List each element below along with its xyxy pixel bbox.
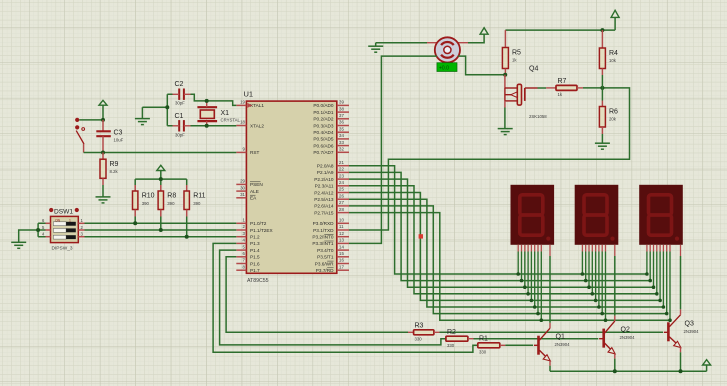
wire P2.0 segment bus — [349, 166, 647, 274]
svg-text:P2.2/A10: P2.2/A10 — [314, 177, 334, 182]
wire ground to capacitors — [142, 106, 167, 108]
node gate divider junction — [600, 86, 604, 90]
wire row2 P1.1 — [85, 229, 237, 231]
pin 16 P3.6/WR — [315, 258, 349, 267]
svg-text:10k: 10k — [609, 58, 617, 63]
node rail R4 — [600, 28, 604, 32]
pin 23 P2.2/A10 — [314, 173, 349, 182]
node display 2 pin 6 junction — [600, 312, 604, 316]
svg-text:R3: R3 — [415, 323, 424, 330]
svg-text:10: 10 — [339, 218, 344, 223]
7-segment display 3 — [639, 185, 683, 256]
node display 1 pin 2 junction — [523, 285, 527, 289]
svg-text:13: 13 — [339, 238, 344, 243]
wire P1.4 to R2 — [220, 250, 446, 345]
svg-text:Q4: Q4 — [529, 66, 538, 73]
svg-text:+0.0: +0.0 — [439, 65, 449, 71]
crystal X1 — [197, 101, 240, 126]
node capacitors left junction — [165, 105, 169, 109]
svg-text:390: 390 — [193, 201, 201, 206]
power arrow above C3 — [102, 105, 104, 120]
pin 4 P1.3 — [236, 238, 260, 247]
svg-text:DIPSW_3: DIPSW_3 — [52, 246, 73, 252]
svg-text:C2: C2 — [175, 81, 184, 88]
svg-text:XTAL2: XTAL2 — [250, 123, 264, 128]
svg-text:P0.2/AD2: P0.2/AD2 — [313, 117, 333, 122]
svg-text:P0.7/AD7: P0.7/AD7 — [313, 150, 333, 155]
svg-text:2N3904: 2N3904 — [684, 329, 700, 334]
svg-text:23: 23 — [339, 173, 344, 178]
node display 1 pin 3 junction — [526, 292, 530, 296]
svg-text:P1.6: P1.6 — [250, 261, 260, 266]
node display 2 pin 4 junction — [594, 299, 598, 303]
svg-text:24: 24 — [339, 180, 344, 185]
wire P1.5 to R3 — [226, 257, 408, 333]
wire Q3 emitter down — [680, 352, 682, 371]
resistor R11 390 — [184, 185, 206, 217]
node R10 row1 — [133, 221, 137, 225]
svg-text:P1.0/T2: P1.0/T2 — [250, 221, 267, 226]
svg-text:P3.6/WR: P3.6/WR — [315, 261, 334, 266]
wire switch to C3 top — [79, 119, 103, 121]
wire R2 to Q2 base — [474, 338, 599, 340]
svg-text:18: 18 — [240, 120, 245, 125]
op-amp U1 AT89C55 microcontroller body — [246, 101, 336, 273]
pin 19 XTAL1 — [236, 100, 264, 109]
node DSW1 left junction — [36, 228, 40, 232]
svg-text:11: 11 — [339, 224, 344, 229]
wire display 2 segment pin 4 — [595, 252, 597, 301]
svg-text:R6: R6 — [609, 109, 618, 116]
svg-text:X1: X1 — [221, 110, 230, 117]
pin 28 P2.7/A15 — [314, 207, 349, 216]
svg-text:C3: C3 — [114, 130, 123, 137]
node display 3 pin 6 junction — [665, 312, 669, 316]
pin 32 P0.7/AD7 — [313, 147, 349, 156]
wire motor lower right to R5 bottom — [458, 56, 505, 75]
svg-text:AT89C55: AT89C55 — [247, 278, 269, 284]
wire display 2 segment pin 0 — [581, 252, 583, 275]
node display 3 pin 0 junction — [645, 272, 649, 276]
svg-text:R1: R1 — [479, 336, 488, 343]
node R8 row2 — [159, 228, 163, 232]
wire P1.3 to R1 — [213, 243, 478, 352]
wire P2.6 segment bus — [349, 206, 667, 314]
node display 3 pin 1 junction — [648, 279, 652, 283]
capacitor C1 — [173, 113, 191, 138]
svg-text:P0.5/AD5: P0.5/AD5 — [313, 137, 333, 142]
node display 2 pin 7 junction — [604, 318, 608, 322]
node display 2 pin 5 junction — [597, 305, 601, 309]
pin 3 P1.2 — [236, 231, 260, 240]
wire pullup top rail — [135, 179, 187, 185]
svg-text:P3.3/INT1: P3.3/INT1 — [312, 241, 333, 246]
svg-text:R5: R5 — [512, 50, 521, 57]
svg-text:RST: RST — [250, 150, 260, 155]
resistor R7 1k — [546, 78, 583, 97]
wire motor lower left to P3.3 — [349, 56, 437, 243]
pin 6 P1.5 — [236, 251, 260, 260]
svg-text:8.2k: 8.2k — [110, 169, 119, 174]
wire C1 C2 left plates vertical — [167, 94, 172, 126]
svg-text:2N3904: 2N3904 — [555, 342, 571, 347]
svg-text:12: 12 — [339, 231, 344, 236]
wire emitter common rail — [550, 365, 707, 371]
node R5 bottom motor junction — [503, 73, 507, 77]
7-segment display 1 — [511, 185, 555, 256]
pin 35 P0.4/AD4 — [313, 126, 349, 135]
svg-text:R9: R9 — [110, 161, 119, 168]
resistor R6 20k — [599, 101, 618, 135]
switch DSW1 DIPSW_3 — [42, 208, 85, 252]
wire R11 bottom to row3 — [186, 217, 188, 237]
svg-text:U1: U1 — [244, 90, 254, 99]
wire motor left to ground — [376, 42, 427, 44]
svg-text:14: 14 — [339, 244, 344, 249]
ground R6 — [601, 134, 603, 143]
svg-text:C1: C1 — [175, 113, 184, 120]
wire P2.2 segment bus — [349, 179, 654, 287]
svg-text:29: 29 — [240, 179, 245, 184]
svg-text:P3.4/T0: P3.4/T0 — [317, 248, 334, 253]
pin 11 P3.1/TXD — [313, 224, 349, 233]
wire display 2 segment pin 7 — [605, 252, 607, 321]
svg-text:39: 39 — [339, 100, 344, 105]
svg-text:30pF: 30pF — [175, 133, 185, 138]
pin 37 P0.2/AD2 — [313, 113, 349, 122]
svg-text:10uF: 10uF — [114, 138, 124, 143]
svg-text:20k: 20k — [609, 117, 617, 122]
svg-text:P0.3/AD3: P0.3/AD3 — [313, 123, 333, 128]
wire display 3 segment pin 7 — [669, 252, 671, 321]
svg-text:P2.4/A12: P2.4/A12 — [314, 190, 334, 195]
wire display 3 segment pin 1 — [649, 252, 651, 281]
pin 22 P2.1/A9 — [317, 167, 349, 176]
pin 36 P0.3/AD3 — [313, 120, 349, 129]
node XTAL2 crystal bottom — [205, 124, 209, 128]
wire P2.1 segment bus — [349, 172, 650, 280]
wire display 1 segment pin 3 — [527, 252, 529, 294]
svg-text:33: 33 — [339, 140, 344, 145]
transistor Q3 2N3904 — [664, 309, 699, 352]
svg-text:27: 27 — [339, 200, 344, 205]
wire R4 to R6 — [601, 75, 603, 101]
wire display 3 segment pin 0 — [646, 252, 648, 275]
svg-text:P0.6/AD6: P0.6/AD6 — [313, 143, 333, 148]
ground Q4 source — [504, 108, 506, 129]
svg-text:30: 30 — [240, 185, 245, 190]
svg-text:Q2: Q2 — [621, 327, 630, 334]
wire display 2 segment pin 2 — [588, 252, 590, 288]
node display 1 pin 5 junction — [533, 305, 537, 309]
svg-text:P2.5/A13: P2.5/A13 — [314, 197, 334, 202]
wire R1 to Q1 base — [505, 344, 533, 346]
svg-text:15: 15 — [339, 251, 344, 256]
svg-text:DSW1: DSW1 — [54, 209, 73, 216]
node display 2 pin 3 junction — [591, 292, 595, 296]
wire display 1 segment pin 7 — [540, 252, 542, 321]
svg-text:R8: R8 — [167, 193, 176, 200]
wire XTAL1 net — [191, 94, 237, 105]
svg-text:35: 35 — [339, 126, 344, 131]
svg-text:P1.5: P1.5 — [250, 255, 260, 260]
svg-text:P3.0/RXD: P3.0/RXD — [313, 221, 334, 226]
pin 13 P3.3/INT1 — [312, 238, 349, 247]
node XTAL1 crystal top — [205, 99, 209, 103]
wire display 3 segment pin 3 — [656, 252, 658, 294]
pin 39 P0.0/AD0 — [313, 100, 349, 109]
svg-text:P2.7/A15: P2.7/A15 — [314, 210, 334, 215]
ground motor left — [375, 43, 377, 47]
svg-text:Q3: Q3 — [685, 320, 694, 327]
svg-text:330: 330 — [415, 337, 423, 342]
svg-text:P2.1/A9: P2.1/A9 — [317, 170, 334, 175]
pin 14 P3.4/T0 — [317, 244, 349, 253]
wire Q4 gate to R7 — [538, 87, 547, 89]
wire R10 bottom to row1 — [134, 217, 136, 224]
pin 29 PSEN — [236, 179, 262, 188]
svg-text:R11: R11 — [193, 193, 205, 200]
wire R7 to R4 R6 junction and P3.1 — [349, 88, 630, 230]
node display 3 pin 2 junction — [652, 285, 656, 289]
node display 3 pin 5 junction — [662, 305, 666, 309]
wire XTAL2 net — [191, 125, 237, 127]
svg-text:2N3904: 2N3904 — [620, 335, 636, 340]
node display 1 pin 0 junction — [516, 272, 520, 276]
pin 27 P2.6/A14 — [314, 200, 349, 209]
svg-text:ALE: ALE — [250, 189, 259, 194]
node display 3 pin 7 junction — [668, 318, 672, 322]
svg-text:19: 19 — [240, 100, 245, 105]
svg-text:330: 330 — [479, 350, 487, 355]
node display 1 pin 1 junction — [520, 279, 524, 283]
node RST junction — [101, 151, 105, 155]
wire VCC rail top — [505, 17, 615, 30]
wire display 1 segment pin 6 — [537, 252, 539, 314]
svg-text:R10: R10 — [142, 193, 155, 200]
svg-text:P0.0/AD0: P0.0/AD0 — [313, 103, 333, 108]
svg-text:25: 25 — [339, 187, 344, 192]
svg-text:17: 17 — [339, 264, 344, 269]
resistor R5 1k — [502, 30, 521, 75]
svg-text:P2.3/A11: P2.3/A11 — [315, 184, 334, 189]
wire display 3 segment pin 4 — [659, 252, 661, 301]
svg-text:P1.7: P1.7 — [250, 268, 260, 273]
node Q2 emitter rail — [613, 369, 617, 373]
pin 7 P1.6 — [236, 258, 260, 267]
svg-text:31: 31 — [240, 192, 245, 197]
node display 1 pin 6 junction — [536, 312, 540, 316]
node display 3 pin 4 junction — [658, 299, 662, 303]
pin 12 P3.2/INT0 — [312, 231, 349, 240]
pin 34 P0.5/AD5 — [313, 133, 349, 142]
node display 1 pin 7 junction — [540, 318, 544, 322]
motor M1 — [427, 37, 468, 62]
resistor R9 — [100, 153, 119, 186]
node display 2 pin 2 junction — [587, 285, 591, 289]
node display 2 pin 1 junction — [584, 279, 588, 283]
svg-text:P1.4: P1.4 — [250, 248, 260, 253]
wire row1 P1.0 — [85, 222, 237, 224]
resistor R4 10k — [599, 30, 618, 75]
wire R8 bottom to row2 — [160, 217, 162, 231]
svg-text:21: 21 — [339, 160, 344, 165]
node C3 top — [101, 118, 105, 122]
pin 31 EA — [236, 192, 257, 201]
svg-text:26: 26 — [339, 193, 344, 198]
wire display 1 segment pin 1 — [521, 252, 523, 281]
node R11 row3 — [185, 235, 189, 239]
pin 15 P3.5/T1 — [317, 251, 349, 260]
wire Q2 emitter down — [614, 359, 616, 372]
svg-text:P3.1/TXD: P3.1/TXD — [313, 228, 334, 233]
svg-text:36: 36 — [339, 120, 344, 125]
wire RST net — [84, 152, 237, 154]
svg-text:PSEN: PSEN — [250, 182, 263, 187]
svg-text:34: 34 — [339, 133, 344, 138]
node Q3 emitter rail — [679, 369, 683, 373]
svg-text:390: 390 — [167, 201, 175, 206]
wire DSW1 left common — [19, 223, 46, 242]
7-segment display 2 — [575, 185, 619, 256]
wire P2.3 segment bus — [349, 186, 657, 294]
wire display 3 segment pin 5 — [662, 252, 664, 308]
power arrow above R8 — [160, 170, 162, 179]
node display 3 pin 3 junction — [655, 292, 659, 296]
svg-text:P0.4/AD4: P0.4/AD4 — [313, 130, 333, 135]
node display 2 pin 0 junction — [581, 272, 585, 276]
pin 18 XTAL2 — [236, 120, 264, 129]
svg-text:32: 32 — [339, 147, 344, 152]
node display 1 pin 4 junction — [530, 299, 534, 303]
pin 33 P0.6/AD6 — [313, 140, 349, 149]
wire display 2 segment pin 3 — [591, 252, 593, 294]
pin 1 P1.0/T2 — [236, 218, 267, 227]
svg-text:P2.6/A14: P2.6/A14 — [314, 204, 334, 209]
svg-text:P2.0/A8: P2.0/A8 — [317, 164, 334, 169]
svg-text:22: 22 — [339, 167, 344, 172]
pin 24 P2.3/A11 — [315, 180, 349, 189]
svg-text:R4: R4 — [609, 50, 618, 57]
svg-text:P1.3: P1.3 — [250, 241, 260, 246]
node pullup rail R8 — [159, 177, 163, 181]
pin 8 P1.7 — [236, 264, 260, 273]
svg-text:R7: R7 — [558, 78, 567, 85]
pin 17 P3.7/RD — [316, 264, 349, 273]
pin 30 ALE — [236, 185, 259, 194]
ground capacitors — [141, 107, 143, 118]
wire display 3 segment pin 6 — [666, 252, 668, 314]
motor active indicator — [437, 63, 457, 72]
svg-text:37: 37 — [339, 113, 344, 118]
pin 26 P2.5/A13 — [314, 193, 349, 202]
resistor R1 330 — [478, 336, 506, 355]
transistor Q4 2SK1058 — [505, 66, 547, 120]
svg-text:P1.1/T2EX: P1.1/T2EX — [250, 228, 274, 233]
svg-text:Q1: Q1 — [556, 334, 565, 341]
wire P2.5 segment bus — [349, 199, 663, 307]
transistor Q2 2N3904 — [599, 316, 635, 359]
resistor R2 330 — [446, 329, 474, 348]
wire R3 to Q3 base — [440, 331, 664, 333]
transistor Q1 2N3904 — [534, 323, 570, 366]
pin 5 P1.4 — [236, 244, 260, 253]
ground DSW1 — [11, 242, 26, 248]
node probe marker — [419, 234, 423, 238]
resistor R8 390 — [158, 185, 176, 217]
wire Q1 emitter down — [549, 366, 551, 372]
svg-text:EA: EA — [250, 196, 257, 201]
wire display 1 segment pin 2 — [524, 252, 526, 288]
wire display 1 segment pin 5 — [534, 252, 536, 308]
switch SW reset — [75, 118, 85, 153]
pin XTAL1 clock marker — [247, 103, 252, 108]
svg-text:1: 1 — [69, 218, 71, 222]
wire display 1 segment pin 0 — [517, 252, 519, 275]
wire display 2 segment pin 6 — [601, 252, 603, 314]
pin 21 P2.0/A8 — [317, 160, 349, 169]
svg-text:2SK1058: 2SK1058 — [529, 114, 547, 119]
power arrow emitter rail — [703, 360, 711, 365]
svg-text:P0.1/AD1: P0.1/AD1 — [313, 110, 333, 115]
svg-text:38: 38 — [339, 106, 344, 111]
wire display 2 segment pin 1 — [585, 252, 587, 281]
power arrow VCC rail — [611, 10, 619, 17]
svg-text:28: 28 — [339, 207, 344, 212]
pin 10 P3.0/RXD — [313, 218, 349, 227]
svg-text:330: 330 — [447, 343, 455, 348]
resistor R10 390 — [133, 185, 155, 217]
wire display2 common to Q2 collector — [614, 256, 616, 316]
wire display 2 segment pin 5 — [598, 252, 600, 308]
wire display 1 segment pin 4 — [530, 252, 532, 301]
wire row3 P1.2 — [85, 236, 237, 238]
pin 2 P1.1/T2EX — [236, 224, 273, 233]
svg-text:R2: R2 — [447, 329, 456, 336]
svg-text:390: 390 — [142, 201, 150, 206]
ground R9 — [102, 185, 104, 197]
pin 38 P0.1/AD1 — [313, 106, 349, 115]
svg-text:P3.7/RD: P3.7/RD — [316, 268, 334, 273]
power arrow motor right — [468, 34, 484, 43]
svg-text:P1.2: P1.2 — [250, 235, 260, 240]
svg-text:P3.5/T1: P3.5/T1 — [317, 255, 334, 260]
wire display 3 segment pin 2 — [653, 252, 655, 288]
pin 25 P2.4/A12 — [314, 187, 349, 196]
svg-text:16: 16 — [339, 258, 344, 263]
svg-text:P3.2/INT0: P3.2/INT0 — [312, 235, 333, 240]
svg-text:XTAL1: XTAL1 — [250, 103, 264, 108]
wire P2.4 segment bus — [349, 193, 660, 301]
svg-text:CRYSTAL: CRYSTAL — [221, 118, 241, 123]
capacitor C2 — [173, 81, 191, 106]
wire display1 common to Q1 collector — [549, 256, 551, 323]
wire display3 common to Q3 collector — [680, 256, 682, 309]
svg-text:30pF: 30pF — [175, 101, 185, 106]
capacitor C3 — [96, 120, 123, 153]
pin 9 RST — [236, 147, 259, 156]
wire P2.7 segment bus — [349, 213, 670, 321]
resistor R3 330 — [408, 323, 440, 342]
